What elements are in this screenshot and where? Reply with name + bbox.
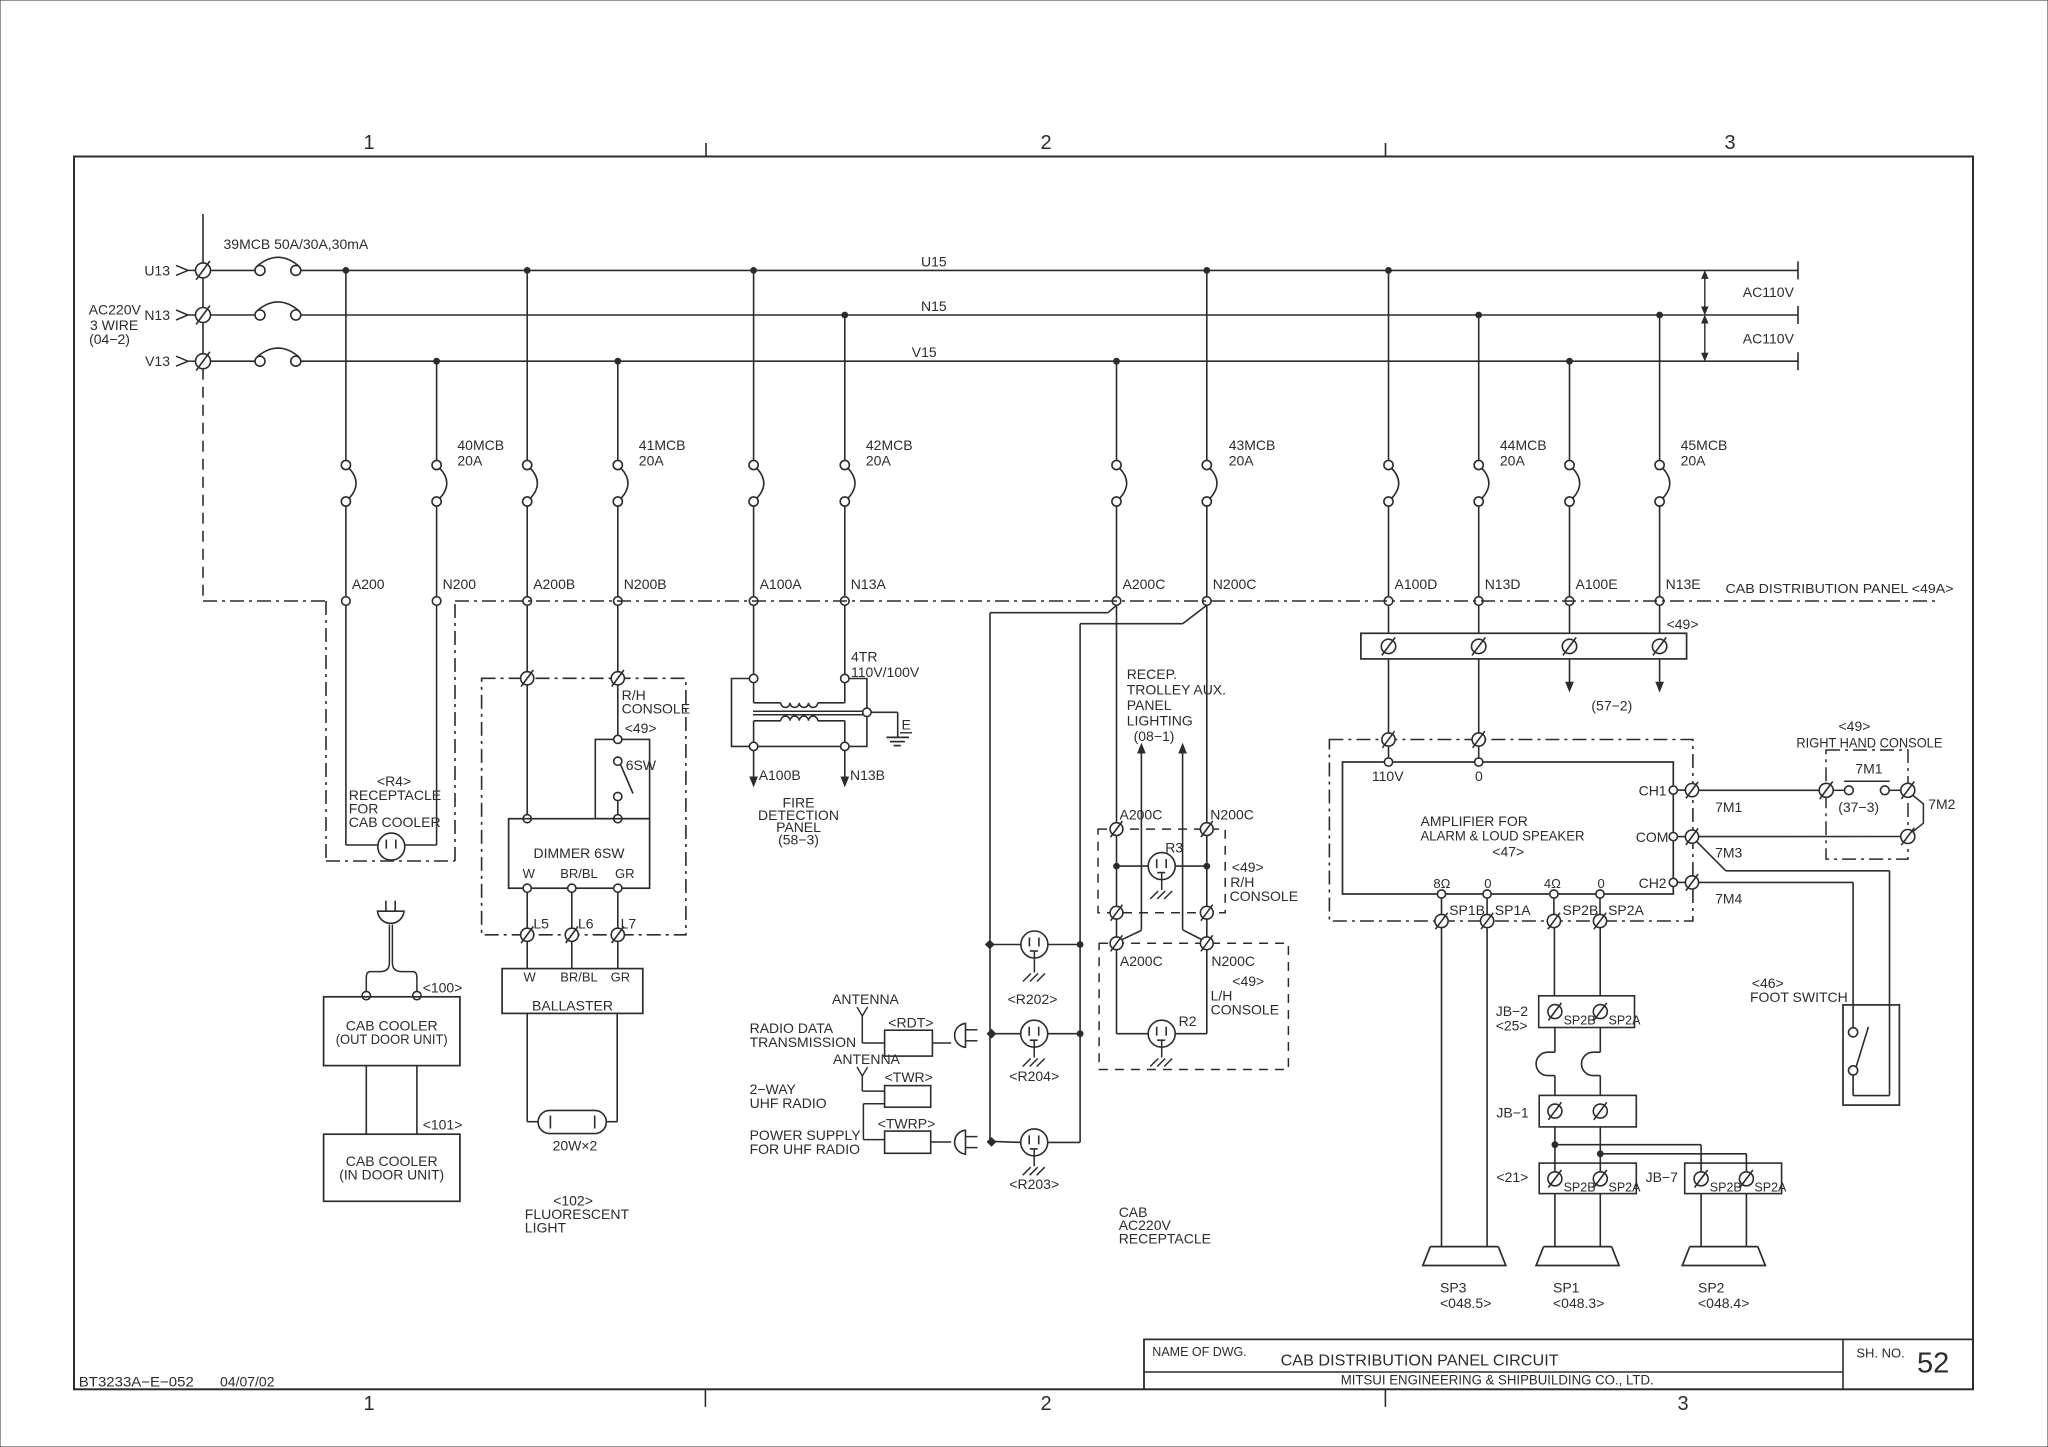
- svg-text:N13D: N13D: [1485, 576, 1521, 592]
- box cab cooler out door unit: [324, 997, 460, 1066]
- label (57-2): [1591, 698, 1632, 714]
- bus N15 end tick: [1797, 306, 1799, 324]
- terminal A200C on R/H box: [1110, 821, 1123, 837]
- label <46> FOOT SWITCH: [1750, 975, 1848, 1005]
- dimension arrow U15-N15: [1702, 271, 1708, 314]
- svg-text:1: 1: [363, 132, 374, 154]
- svg-text:<49>: <49>: [1839, 718, 1871, 734]
- wire COM stub: [1677, 836, 1685, 838]
- wire jumper to JB-7 left: [1555, 1145, 1701, 1172]
- svg-text:7M2: 7M2: [1928, 796, 1955, 812]
- svg-text:20A: 20A: [457, 453, 483, 469]
- svg-text:<R202>: <R202>: [1008, 991, 1058, 1007]
- right hand console dash-dot box: [1826, 750, 1908, 859]
- svg-text:N200: N200: [443, 576, 477, 592]
- label DIMMER 6SW: [534, 845, 626, 861]
- svg-text:7M4: 7M4: [1715, 891, 1742, 907]
- svg-text:A200C: A200C: [1120, 953, 1163, 969]
- amplifier boundary dash-dot box: [1329, 740, 1693, 922]
- speaker SP1: [1536, 1247, 1619, 1266]
- label JB-1: [1496, 1104, 1529, 1120]
- breaker 39MCB pole V: [211, 348, 301, 366]
- svg-text:U15: U15: [921, 254, 947, 270]
- label <R204>: [1009, 1068, 1059, 1084]
- svg-text:E: E: [902, 717, 911, 733]
- svg-text:AC220V: AC220V: [89, 302, 142, 318]
- drawing frame border: [74, 157, 1973, 1390]
- terminal JB-2 SP2B: [1548, 1003, 1596, 1027]
- breaker 39MCB pole U: [211, 257, 301, 275]
- ground R204: [1023, 1040, 1045, 1066]
- wire A100A to transformer: [753, 605, 755, 674]
- boundary detour around R4: [326, 601, 455, 861]
- antenna symbol upper: [857, 1007, 885, 1043]
- breaker A200 MCB switch: [341, 460, 356, 506]
- wire COM to console: [1699, 836, 1901, 838]
- terminal on console box right: [611, 670, 624, 687]
- junction diamond R203 left: [987, 1138, 995, 1146]
- breaker N200B MCB switch: [613, 460, 628, 506]
- wire A100E to terminal strip: [1569, 605, 1571, 633]
- strip terminal A100E: [1562, 637, 1576, 655]
- title block divider horizontal: [1144, 1371, 1843, 1373]
- label A200: [352, 576, 385, 592]
- svg-text:LIGHTING: LIGHTING: [1127, 713, 1193, 729]
- box RDT: [885, 1030, 933, 1056]
- breaker A200B MCB switch: [523, 460, 538, 506]
- junction dot A100E on bus: [1567, 358, 1573, 364]
- column tick top 1-2: [705, 143, 707, 157]
- label <100>: [423, 979, 463, 995]
- lamp 7M1: [1833, 781, 1900, 794]
- label N13E: [1666, 576, 1701, 592]
- terminal on out door unit left: [362, 991, 370, 999]
- svg-text:GR: GR: [615, 866, 635, 881]
- boundary terminal 110V: [1382, 731, 1395, 748]
- node dimmer out GR: [614, 884, 622, 892]
- svg-text:AC110V: AC110V: [1743, 284, 1795, 300]
- node transformer top left: [749, 674, 757, 682]
- breaker A100A MCB switch: [749, 460, 764, 506]
- svg-text:SP2B: SP2B: [1564, 1181, 1596, 1195]
- arrow feed 57-2 left: [1566, 659, 1573, 691]
- svg-text:A200: A200: [352, 576, 385, 592]
- label <R203>: [1009, 1176, 1059, 1192]
- svg-text:L6: L6: [578, 916, 594, 932]
- R/H console receptacle dashed box: [1098, 829, 1225, 913]
- node 6SW feed: [614, 735, 622, 743]
- label A100A: [760, 576, 803, 592]
- wire amp to SP2B: [1553, 898, 1555, 914]
- svg-text:0: 0: [1484, 876, 1491, 891]
- breaker N200 MCB switch: [432, 460, 447, 506]
- wire console to dimmer W: [526, 685, 528, 815]
- terminal L5: [521, 927, 534, 944]
- wire R202 leads: [990, 944, 1080, 946]
- label ANTENNA upper: [832, 991, 900, 1007]
- label AMPLIFIER FOR ALARM & LOUD SPEAKER <47>: [1421, 813, 1585, 860]
- svg-text:UHF RADIO: UHF RADIO: [750, 1095, 827, 1111]
- svg-text:ALARM & LOUD SPEAKER: ALARM & LOUD SPEAKER: [1421, 828, 1585, 844]
- label SP3 <048.5>: [1440, 1280, 1491, 1312]
- terminal JB-1 right: [1593, 1102, 1607, 1120]
- label 20Wx2: [553, 1138, 598, 1154]
- bus U15: [301, 269, 1798, 271]
- label COM: [1636, 829, 1669, 845]
- wire between console boxes left: [1116, 919, 1118, 937]
- wire dimmer to L6: [571, 892, 573, 928]
- node amp COM: [1669, 833, 1677, 841]
- strip terminal A100D: [1381, 637, 1395, 655]
- trolley feed wire right: [1179, 744, 1202, 940]
- svg-text:N15: N15: [921, 298, 947, 314]
- trolley feed wire left: [1122, 744, 1146, 940]
- label CH1: [1639, 783, 1667, 799]
- svg-text:LIGHT: LIGHT: [525, 1220, 567, 1236]
- svg-text:20W×2: 20W×2: [553, 1138, 598, 1154]
- label A200B: [533, 576, 575, 592]
- svg-text:20A: 20A: [1229, 453, 1255, 469]
- label CAB DISTRIBUTION PANEL <49A>: [1726, 581, 1954, 596]
- junction dot R3 left: [1114, 863, 1120, 869]
- box TWRP: [885, 1131, 931, 1153]
- svg-text:<25>: <25>: [1496, 1018, 1528, 1034]
- wire A200 breaker to boundary: [345, 506, 347, 597]
- node dimmer out BR/BL: [568, 884, 576, 892]
- junction dot R3 right: [1204, 863, 1210, 869]
- wire N13E breaker to boundary: [1659, 506, 1661, 597]
- svg-text:<100>: <100>: [423, 979, 463, 995]
- svg-text:SP2B: SP2B: [1710, 1181, 1742, 1195]
- label SP1 <048.3>: [1553, 1280, 1604, 1312]
- transformer 4TR outer loop: [732, 679, 867, 747]
- receptacle R202: [1021, 931, 1048, 958]
- label FIRE DETECTION PANEL (58-3): [758, 795, 839, 848]
- breaker A100E MCB switch: [1565, 460, 1580, 506]
- title block divider vertical: [1842, 1339, 1844, 1389]
- boundary terminal SP2A: [1593, 913, 1606, 929]
- bus N15: [301, 314, 1798, 316]
- wire SP2B to JB-2: [1553, 928, 1555, 996]
- terminal L6: [565, 927, 578, 944]
- svg-text:8Ω: 8Ω: [1433, 876, 1450, 891]
- wire N13A to transformer: [844, 605, 846, 674]
- svg-text:ANTENNA: ANTENNA: [832, 991, 900, 1007]
- cab distribution panel boundary right: [455, 600, 1940, 602]
- wire amp to SP2A: [1599, 898, 1601, 914]
- junction dot A200B on bus: [524, 268, 530, 274]
- wire A200 down to R4: [346, 605, 378, 845]
- arrow into V13: [176, 356, 196, 366]
- node amp SP1A: [1483, 890, 1491, 898]
- terminal A200B at panel boundary: [523, 597, 532, 606]
- 6SW enclosure box: [595, 739, 649, 818]
- label N13B: [850, 767, 885, 783]
- speaker SP3: [1423, 1247, 1506, 1266]
- wire 7M3: [1696, 841, 1889, 1095]
- svg-text:44MCB: 44MCB: [1500, 437, 1547, 453]
- terminal A200C at panel boundary: [1112, 597, 1121, 606]
- wire A100E bus to breaker: [1569, 361, 1571, 460]
- node amp SP2B: [1550, 890, 1558, 898]
- terminal JB-7 SP2B: [1694, 1170, 1742, 1195]
- receptacle R203: [1021, 1129, 1048, 1156]
- svg-text:110V: 110V: [1372, 768, 1404, 784]
- bus V15: [301, 360, 1798, 362]
- label A100D: [1395, 576, 1438, 592]
- strip terminal N13E: [1652, 637, 1666, 655]
- node dimmer out W: [523, 884, 531, 892]
- arrow N13B: [841, 751, 848, 786]
- wire R2 left: [1117, 950, 1149, 1034]
- svg-text:SP2: SP2: [1698, 1280, 1725, 1296]
- wire A200C breaker to boundary: [1116, 506, 1118, 597]
- ground R2: [1150, 1040, 1172, 1066]
- junction dot N200B on bus: [615, 358, 621, 364]
- svg-text:U13: U13: [144, 262, 170, 278]
- svg-text:<TWR>: <TWR>: [885, 1069, 933, 1085]
- label 0 sp1a: [1484, 876, 1491, 891]
- label U13: [144, 262, 170, 278]
- cab distribution panel boundary left: [203, 600, 326, 602]
- node transformer top right: [841, 674, 849, 682]
- wire A100A bus to breaker: [753, 270, 755, 460]
- svg-text:7M1: 7M1: [1855, 761, 1882, 777]
- wire out door to in door right: [416, 1066, 418, 1135]
- wire R3 right: [1206, 836, 1208, 907]
- svg-text:SP2B: SP2B: [1564, 1013, 1596, 1027]
- wire R3 left: [1116, 836, 1118, 907]
- boundary terminal SP2B: [1547, 913, 1560, 929]
- svg-text:45MCB: 45MCB: [1681, 437, 1728, 453]
- svg-text:0: 0: [1475, 768, 1483, 784]
- label A200C upper: [1120, 807, 1163, 823]
- svg-text:R2: R2: [1179, 1013, 1197, 1029]
- arrow A100B: [750, 751, 757, 786]
- svg-text:<101>: <101>: [423, 1117, 463, 1133]
- svg-text:7M3: 7M3: [1715, 845, 1742, 861]
- label AC220V 3 WIRE (04-2): [89, 302, 142, 348]
- breaker A100D MCB switch: [1384, 460, 1399, 506]
- svg-text:RIGHT HAND CONSOLE: RIGHT HAND CONSOLE: [1796, 735, 1942, 751]
- svg-text:3: 3: [1724, 132, 1735, 154]
- terminal R/H box bottom right: [1200, 905, 1213, 921]
- label V13: [145, 353, 170, 369]
- wire 21 to speaker SP1 left: [1554, 1194, 1556, 1247]
- node amp 110V: [1384, 758, 1392, 766]
- terminal 21 SP2A: [1593, 1170, 1641, 1195]
- wire ballaster to lamp right: [606, 1013, 617, 1121]
- wire strip to amp boundary right: [1478, 659, 1480, 733]
- svg-text:A100D: A100D: [1395, 576, 1438, 592]
- boundary terminal COM: [1685, 828, 1698, 845]
- wire N13E to terminal strip: [1659, 605, 1661, 633]
- wire dimmer to L5: [526, 892, 528, 928]
- svg-text:R3: R3: [1165, 840, 1183, 856]
- label CAB COOLER (IN DOOR UNIT): [339, 1153, 444, 1183]
- svg-text:4Ω: 4Ω: [1544, 876, 1561, 891]
- wire SP1B to speaker SP3: [1441, 928, 1443, 1247]
- terminal A100D at panel boundary: [1384, 597, 1393, 606]
- svg-text:CH2: CH2: [1639, 875, 1667, 891]
- svg-text:BT3233A−E−052: BT3233A−E−052: [79, 1374, 194, 1390]
- wire N200C jog to receptacle bus: [1080, 605, 1207, 623]
- label <RDT>: [888, 1015, 933, 1031]
- svg-text:CAB COOLER: CAB COOLER: [349, 814, 441, 830]
- label <102> FLUORESCENT LIGHT: [525, 1193, 630, 1236]
- svg-text:39MCB 50A/30A,30mA: 39MCB 50A/30A,30mA: [224, 236, 369, 252]
- label R2: [1179, 1013, 1197, 1029]
- terminal N200B at panel boundary: [614, 597, 623, 606]
- svg-text:A200B: A200B: [533, 576, 575, 592]
- receptacle bus right: [1079, 624, 1081, 1143]
- node amp CH2: [1669, 878, 1677, 886]
- strip terminal N13D: [1472, 637, 1486, 655]
- cord from plug: [366, 925, 417, 992]
- fluorescent lamp 20Wx2: [538, 1110, 606, 1133]
- svg-text:04/07/02: 04/07/02: [220, 1374, 275, 1390]
- wire N13E bus to breaker: [1659, 315, 1661, 460]
- box JB-1: [1539, 1095, 1636, 1127]
- label 4ohm: [1544, 876, 1561, 891]
- svg-text:FOOT SWITCH: FOOT SWITCH: [1750, 989, 1848, 1005]
- svg-text:<49>: <49>: [1232, 973, 1264, 989]
- plug for cab cooler: [378, 901, 405, 924]
- terminal on console box left: [521, 670, 534, 687]
- label 7M2: [1928, 796, 1955, 812]
- label A100E: [1576, 576, 1618, 592]
- svg-text:(IN DOOR UNIT): (IN DOOR UNIT): [339, 1167, 444, 1183]
- label 6SW: [626, 757, 657, 773]
- svg-text:W: W: [523, 866, 536, 881]
- terminal V13: [196, 352, 211, 371]
- wire out door to in door left: [365, 1066, 367, 1135]
- terminal N13E at panel boundary: [1655, 597, 1664, 606]
- arrow feed 57-2 right: [1656, 659, 1663, 691]
- node amp SP2A: [1596, 890, 1604, 898]
- label SP2 <048.4>: [1698, 1280, 1749, 1312]
- breaker 39MCB pole N: [211, 302, 301, 320]
- transformer core: [753, 711, 865, 715]
- label <21>: [1496, 1169, 1528, 1185]
- svg-text:RECEP.: RECEP.: [1127, 666, 1177, 682]
- wire console to 6SW: [617, 685, 619, 735]
- junction diamond R202 left: [986, 940, 994, 948]
- svg-text:SP1B: SP1B: [1449, 902, 1485, 918]
- svg-text:N13B: N13B: [850, 767, 885, 783]
- svg-text:4TR: 4TR: [851, 649, 877, 665]
- wire A100D to terminal strip: [1388, 605, 1390, 633]
- label RECEP. TROLLEY AUX. PANEL LIGHTING (08-1): [1127, 666, 1226, 744]
- wire R203 leads: [1048, 1141, 1080, 1143]
- wire TWR to TWRP: [863, 1104, 884, 1140]
- wire to amp 110V: [1388, 746, 1390, 758]
- label 45MCB 20A: [1681, 437, 1728, 469]
- label <49> RIGHT HAND CONSOLE: [1796, 718, 1942, 751]
- label N13: [144, 307, 170, 323]
- label 2-WAY UHF RADIO: [750, 1081, 827, 1111]
- svg-text:AC110V: AC110V: [1743, 331, 1795, 347]
- wire A200 bus to breaker: [345, 270, 347, 460]
- label N200C lower: [1211, 953, 1255, 969]
- ground symbol E: [886, 737, 909, 745]
- svg-text:SP2A: SP2A: [1609, 1013, 1642, 1027]
- label 0 sp2a: [1598, 876, 1605, 891]
- wire N13D bus to breaker: [1478, 315, 1480, 460]
- terminal N13D at panel boundary: [1474, 597, 1483, 606]
- wire to amp 0: [1478, 746, 1480, 758]
- label L6: [578, 916, 594, 932]
- svg-text:CAB DISTRIBUTION PANEL <49A>: CAB DISTRIBUTION PANEL <49A>: [1726, 581, 1954, 596]
- terminal A100E at panel boundary: [1565, 597, 1574, 606]
- wire N200 breaker to boundary: [436, 506, 438, 597]
- wire N200C breaker to boundary: [1206, 506, 1208, 597]
- wire R204 leads: [990, 1033, 1080, 1035]
- wire RDT to plug: [932, 1042, 951, 1044]
- wire A100E breaker to boundary: [1569, 506, 1571, 597]
- wire CH2 to foot switch: [1699, 882, 1854, 1027]
- label SH. NO.: [1856, 1346, 1904, 1361]
- ground R3: [1150, 873, 1172, 899]
- boundary terminal 0: [1472, 731, 1485, 748]
- title block box: [1144, 1339, 1973, 1389]
- terminal N200 at panel boundary: [432, 597, 441, 606]
- label 7M4: [1715, 891, 1742, 907]
- label ANTENNA lower: [833, 1051, 901, 1067]
- boundary terminal CH2: [1685, 874, 1698, 891]
- label BT3233A-E-052: [79, 1374, 194, 1390]
- label N13A: [851, 576, 887, 592]
- svg-text:CONSOLE: CONSOLE: [622, 701, 690, 717]
- label 42MCB 20A: [866, 437, 913, 469]
- label sheet 52: [1917, 1348, 1949, 1380]
- label <R202>: [1008, 991, 1058, 1007]
- svg-text:V13: V13: [145, 353, 170, 369]
- wire to earth E: [871, 712, 898, 737]
- terminal strip box: [1361, 633, 1687, 659]
- svg-text:GR: GR: [611, 970, 631, 985]
- label 0: [1475, 768, 1483, 784]
- wire JB-1 to 21 left: [1554, 1127, 1556, 1172]
- svg-text:<47>: <47>: [1492, 844, 1524, 860]
- plug TWRP: [955, 1130, 978, 1154]
- junction dot A100A on bus: [751, 268, 757, 274]
- column label 2 bottom: [1040, 1393, 1051, 1415]
- terminal N13: [196, 306, 211, 325]
- label CAB AC220V RECEPTACLE: [1119, 1204, 1211, 1247]
- label L7: [621, 916, 637, 932]
- svg-text:SP2A: SP2A: [1609, 1181, 1642, 1195]
- svg-text:FOR UHF RADIO: FOR UHF RADIO: [750, 1141, 861, 1157]
- junction dot A100D on bus: [1386, 268, 1392, 274]
- label dimmer W BR/BL GR: [523, 866, 635, 881]
- bus V15 end tick: [1797, 352, 1799, 370]
- svg-text:(57−2): (57−2): [1591, 698, 1632, 714]
- feeder cable dashed segment: [202, 369, 204, 601]
- title CAB DISTRIBUTION PANEL CIRCUIT: [1281, 1353, 1559, 1370]
- svg-text:JB−7: JB−7: [1646, 1169, 1679, 1185]
- wire N13A bus to breaker: [844, 315, 846, 460]
- wire N200B to console: [617, 605, 619, 671]
- svg-text:<TWRP>: <TWRP>: [878, 1116, 936, 1132]
- svg-text:N13E: N13E: [1666, 576, 1701, 592]
- wire N200C bus to breaker: [1206, 270, 1208, 460]
- wire N200B breaker to boundary: [617, 506, 619, 597]
- column label 3 bottom: [1677, 1393, 1688, 1415]
- terminal N200C on R/H box: [1200, 821, 1213, 837]
- label N13D: [1485, 576, 1521, 592]
- wire A200B to console: [526, 605, 528, 671]
